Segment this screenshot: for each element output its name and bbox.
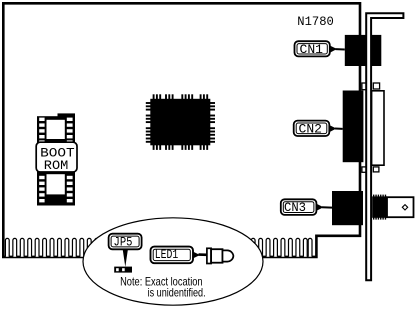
svg-text:CN1: CN1	[300, 42, 324, 57]
boot rom top window	[47, 120, 65, 139]
svg-text:LED1: LED1	[155, 247, 179, 262]
QFP chip U1	[146, 94, 215, 150]
svg-text:JP5: JP5	[114, 235, 133, 250]
DB15 connector shell	[372, 91, 384, 165]
svg-text:is unidentified.: is unidentified.	[148, 286, 206, 300]
jack screw tab top-right	[373, 83, 379, 89]
label CN2	[294, 121, 343, 137]
svg-text:CN2: CN2	[299, 121, 323, 136]
connector CN2 block	[343, 91, 364, 163]
boot rom bottom window	[47, 174, 65, 194]
svg-text:N1780: N1780	[297, 14, 334, 29]
BOOT ROM label box	[36, 142, 77, 173]
jack screw tab bottom-left	[362, 167, 366, 172]
label JP5	[109, 234, 142, 267]
BNC barrel ribbed	[372, 195, 387, 220]
jumper JP5 block	[114, 267, 132, 273]
boot rom pins	[39, 118, 72, 203]
board outline	[3, 3, 360, 257]
label LED1	[151, 247, 208, 264]
connector CN1 block	[345, 35, 382, 66]
LED1 component	[207, 248, 234, 263]
BNC tip diamond	[402, 205, 407, 210]
mounting bracket with top hook	[366, 13, 403, 280]
edge connector fingers	[5, 238, 312, 256]
BNC tip	[387, 197, 414, 217]
boot rom chip body	[37, 113, 75, 205]
label CN3	[281, 199, 332, 215]
jack screw tab top-left	[362, 83, 366, 90]
svg-text:CN3: CN3	[284, 200, 306, 215]
connector CN3 block	[332, 191, 363, 225]
svg-text:ROM: ROM	[44, 158, 69, 173]
jack screw tab bottom-right	[373, 167, 379, 172]
callout ellipse	[83, 218, 263, 305]
label CN1	[295, 41, 345, 57]
